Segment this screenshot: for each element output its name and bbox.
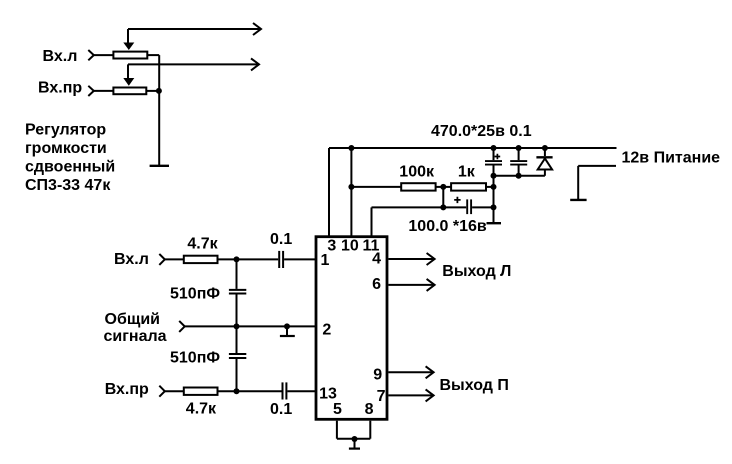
svg-text:0.1: 0.1	[270, 231, 292, 248]
svg-text:510пФ: 510пФ	[170, 286, 220, 303]
svg-text:1к: 1к	[458, 164, 476, 181]
svg-text:510пФ: 510пФ	[170, 350, 220, 367]
svg-text:4.7к: 4.7к	[187, 235, 218, 252]
svg-text:Вх.л: Вх.л	[43, 48, 78, 65]
svg-text:1: 1	[321, 252, 330, 269]
svg-text:Вх.л: Вх.л	[114, 251, 149, 268]
svg-text:4: 4	[372, 251, 381, 268]
svg-text:сигнала: сигнала	[104, 328, 167, 345]
svg-text:Регулятор: Регулятор	[25, 122, 106, 139]
svg-text:Вх.пр: Вх.пр	[105, 381, 149, 398]
svg-text:сдвоенный: сдвоенный	[25, 159, 115, 176]
svg-text:100.0 *16в: 100.0 *16в	[408, 218, 487, 235]
svg-text:Выход П: Выход П	[440, 377, 509, 394]
svg-text:0.1: 0.1	[270, 401, 292, 418]
svg-text:5: 5	[333, 401, 342, 418]
svg-text:Вх.пр: Вх.пр	[38, 80, 82, 97]
svg-text:100к: 100к	[399, 164, 435, 181]
svg-text:Выход Л: Выход Л	[442, 263, 511, 280]
svg-text:громкости: громкости	[25, 140, 107, 157]
svg-text:13: 13	[319, 386, 337, 403]
svg-text:6: 6	[372, 276, 381, 293]
svg-text:2: 2	[322, 321, 331, 338]
svg-text:7: 7	[377, 388, 386, 405]
svg-text:8: 8	[365, 401, 374, 418]
svg-text:4.7к: 4.7к	[186, 401, 217, 418]
svg-text:12в Питание: 12в Питание	[622, 149, 721, 166]
svg-text:10: 10	[341, 238, 359, 255]
svg-text:Общий: Общий	[105, 311, 161, 328]
svg-text:9: 9	[373, 367, 382, 384]
svg-text:СП3-33 47к: СП3-33 47к	[25, 177, 111, 194]
svg-text:470.0*25в 0.1: 470.0*25в 0.1	[431, 123, 532, 140]
